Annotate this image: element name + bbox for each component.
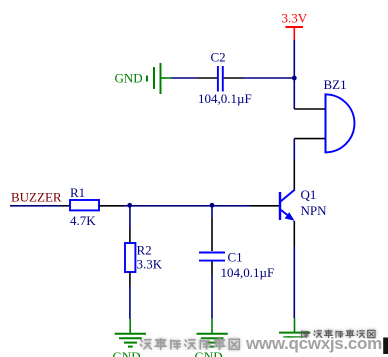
svg-text:104,0.1µF: 104,0.1µF [221, 265, 275, 280]
svg-text:3.3V: 3.3V [282, 11, 308, 26]
svg-text:R2: R2 [137, 243, 152, 258]
svg-text:GND: GND [115, 71, 143, 86]
wire C2 pin 2 to junction [243, 77, 294, 79]
junction at R2 branch [127, 203, 132, 208]
capacitor C1 [199, 218, 274, 280]
ground under R2 [113, 319, 147, 357]
wire Q1 emitter pin to ground [293, 246, 295, 318]
transistor Q1 [250, 160, 327, 246]
wire BUZZER to R1 pin 1 [10, 205, 61, 207]
wire junction down to R2 pin 1 [129, 206, 131, 229]
svg-text:GND: GND [195, 349, 223, 357]
power port 3.3V [282, 11, 308, 41]
svg-text:3.3K: 3.3K [137, 257, 163, 272]
wire R2 pin 2 to ground [129, 286, 131, 319]
svg-text:R1: R1 [70, 185, 85, 200]
wire R1 pin 2 to Q1 base pin [123, 205, 250, 207]
svg-text:104,0.1µF: 104,0.1µF [198, 91, 252, 106]
wire 3.3V rail down to buzzer pin 1 [293, 40, 295, 109]
svg-text:Q1: Q1 [301, 187, 317, 202]
junction at C1 branch [210, 203, 215, 208]
ground under Q1 emitter [279, 318, 310, 345]
power port GND (top left) [115, 63, 172, 94]
svg-text:4.7K: 4.7K [70, 213, 96, 228]
svg-text:C2: C2 [211, 50, 226, 65]
junction at 3.3V rail and C2 wire [292, 76, 297, 81]
wire C1 pin 2 to ground [211, 275, 213, 319]
ground under C1 [195, 319, 228, 357]
wire junction down to C1 pin 1 [211, 206, 213, 218]
watermark [140, 330, 388, 354]
svg-text:BZ1: BZ1 [324, 77, 347, 92]
svg-text:GND: GND [113, 349, 141, 357]
svg-text:www.qcwxjs.com: www.qcwxjs.com [245, 334, 382, 353]
svg-text:NPN: NPN [301, 203, 328, 218]
wire buzzer pin 2 to Q1 collector pin [293, 139, 295, 160]
capacitor C2 [198, 50, 252, 107]
wire GND port to C2 pin 1 [171, 77, 198, 79]
resistor R1 [61, 185, 123, 228]
svg-text:C1: C1 [228, 250, 243, 265]
resistor R2 [125, 229, 163, 286]
svg-text:BUZZER: BUZZER [11, 190, 62, 205]
buzzer BZ1 [294, 77, 354, 153]
